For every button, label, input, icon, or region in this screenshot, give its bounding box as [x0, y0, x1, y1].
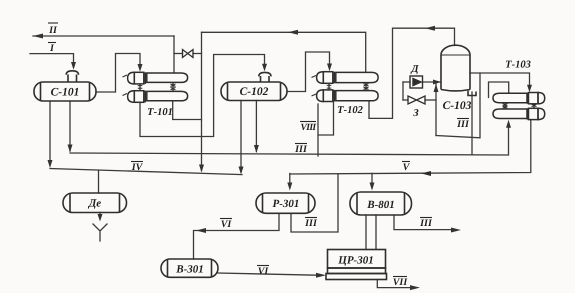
arrow line IV downcomer: [199, 165, 204, 173]
svg-text:VII: VII: [393, 277, 409, 288]
wire line IV collector: [50, 169, 242, 175]
heat exchanger T-103: [493, 93, 545, 120]
arrow stream II left: [33, 34, 43, 39]
heat exchanger T-102: [312, 72, 379, 102]
wire T-103 shell bridge: [489, 82, 509, 98]
wire bypass valve line right: [425, 99, 436, 101]
arrow into CR-301: [316, 273, 326, 278]
arrow into T-102: [327, 64, 332, 72]
overline VII: [393, 276, 407, 278]
svg-text:VI: VI: [258, 266, 270, 277]
overline III C-103: [457, 118, 469, 120]
wire line V: [290, 120, 531, 174]
wire R-301 bottoms to line V riser: [291, 174, 338, 232]
drum De: [63, 193, 127, 213]
valve Z bypass: [408, 96, 425, 104]
separator C-103: [441, 45, 476, 95]
overline III: [295, 143, 307, 145]
wire C-101 outlet to T-101: [96, 54, 140, 93]
wire De feed: [98, 170, 100, 193]
arrow line III C-102: [254, 145, 259, 153]
wire line V to R-301: [289, 174, 291, 188]
svg-text:III: III: [456, 119, 470, 130]
overline V: [402, 161, 410, 163]
svg-text:V: V: [403, 162, 411, 173]
wire R-301 bottoms to VI: [194, 213, 280, 259]
arrow into V-801: [370, 183, 375, 191]
wire line III collector: [70, 124, 509, 155]
wire C-101 bottoms to line III: [69, 102, 71, 152]
centrifuge CR-301: [326, 250, 387, 280]
arrow into T-103 channel: [527, 85, 532, 93]
wire T-102 drain VIII: [318, 102, 334, 136]
wire bypass valve line left: [403, 99, 408, 101]
overline II: [48, 22, 58, 24]
wire bypass left riser: [402, 82, 404, 100]
wire branch to T-101 shell bottom: [173, 101, 202, 120]
svg-text:Д: Д: [410, 64, 419, 75]
svg-text:III: III: [294, 144, 308, 155]
wire damper outlet arrow line: [423, 81, 441, 83]
separator C-102: [221, 72, 287, 100]
overline VI: [220, 218, 232, 220]
wire C-103 to T-103: [470, 73, 530, 89]
arrow bypass riser up: [434, 84, 439, 92]
wire bypass right riser: [435, 82, 437, 136]
wire De drain funnel: [93, 224, 107, 241]
svg-text:II: II: [48, 25, 58, 36]
overline VIII: [300, 121, 316, 123]
svg-text:Т-101: Т-101: [147, 107, 173, 118]
wire T-101 tube outlet to C-102: [140, 55, 265, 137]
arrow top transfer left: [288, 30, 298, 35]
heat exchanger T-101: [123, 72, 188, 102]
wire C-103 overhead to T-102 shell: [369, 28, 455, 118]
svg-text:VIII: VIII: [300, 123, 316, 133]
svg-text:С-101: С-101: [51, 87, 80, 99]
arrow into C-102 dome: [262, 64, 267, 72]
wire VII outlet: [377, 280, 412, 288]
svg-text:Р-301: Р-301: [273, 198, 300, 210]
arrow into R-301: [287, 183, 292, 191]
arrow damper to C-103: [433, 80, 441, 85]
arrow De drain: [98, 214, 103, 222]
svg-text:III: III: [419, 218, 433, 229]
wire C-102 bottoms to line III: [255, 101, 257, 152]
wire top transfer line T-102 to valve: [202, 32, 366, 72]
wire C-101 bottoms to line IV: [49, 102, 51, 165]
wire stream I feed: [30, 54, 74, 62]
overline I: [48, 42, 56, 44]
arrow on line V: [421, 171, 431, 176]
svg-text:С-103: С-103: [443, 100, 472, 112]
wire damper line to C-103: [403, 81, 410, 83]
svg-text:Т-102: Т-102: [337, 105, 363, 116]
drum V-801: [350, 192, 412, 215]
wire valve branch right: [193, 53, 202, 55]
svg-text:Т-103: Т-103: [505, 60, 531, 71]
arrow line III C-101: [68, 145, 73, 153]
arrow line IV C-101: [48, 160, 53, 168]
svg-text:В-801: В-801: [366, 199, 395, 211]
overline III R-301: [305, 217, 317, 219]
svg-text:З: З: [412, 108, 419, 119]
wire V-801 bottoms to III: [394, 215, 452, 230]
stream labels with overlines: [48, 25, 470, 288]
damper device D: [410, 76, 423, 88]
svg-text:I: I: [49, 43, 55, 54]
wire valve branch left: [174, 53, 183, 55]
drum V-301: [161, 259, 218, 277]
overline III V-801: [420, 217, 432, 219]
wire C-102 outlet to T-102: [287, 52, 330, 92]
arrow stream III right: [451, 228, 461, 233]
arrow stream VII right: [410, 285, 420, 290]
wire V-301 outlet VI: [218, 273, 322, 275]
arrow into T-101: [138, 64, 143, 72]
valve overhead bypass: [183, 50, 194, 58]
wire C-102 bottoms to line IV: [240, 101, 242, 173]
arrow stream VI left: [196, 228, 206, 233]
wire CR-301 stem right: [375, 215, 377, 250]
wire line V to V-801: [371, 173, 373, 187]
wire C-103 bottoms: [471, 92, 473, 154]
svg-text:В-301: В-301: [175, 264, 204, 276]
svg-text:III: III: [304, 218, 318, 229]
arrow into C-101 dome: [71, 62, 76, 70]
wire C-103 recirculation U: [436, 73, 480, 138]
arrow C-103 overhead left: [425, 26, 435, 31]
svg-text:Де: Де: [88, 198, 102, 210]
wire VIII riser to line III: [317, 104, 319, 156]
overline IV: [131, 161, 143, 163]
svg-text:VI: VI: [221, 219, 233, 230]
svg-text:IV: IV: [131, 162, 144, 173]
separator C-101: [34, 71, 96, 101]
svg-text:ЦР-301: ЦР-301: [337, 255, 373, 267]
reactor R-301: [256, 193, 315, 213]
arrow line IV C-102: [239, 167, 244, 175]
svg-text:С-102: С-102: [240, 86, 269, 98]
wire C-103 overhead downcomer: [201, 32, 203, 170]
overline VI V-301: [257, 265, 269, 267]
wire De drain: [99, 213, 101, 218]
wire stream II header: [33, 35, 174, 37]
wire T-101 shell outlet riser: [173, 36, 175, 73]
arrow line III into T-103: [506, 120, 511, 128]
wire CR-301 stem left: [365, 215, 367, 250]
